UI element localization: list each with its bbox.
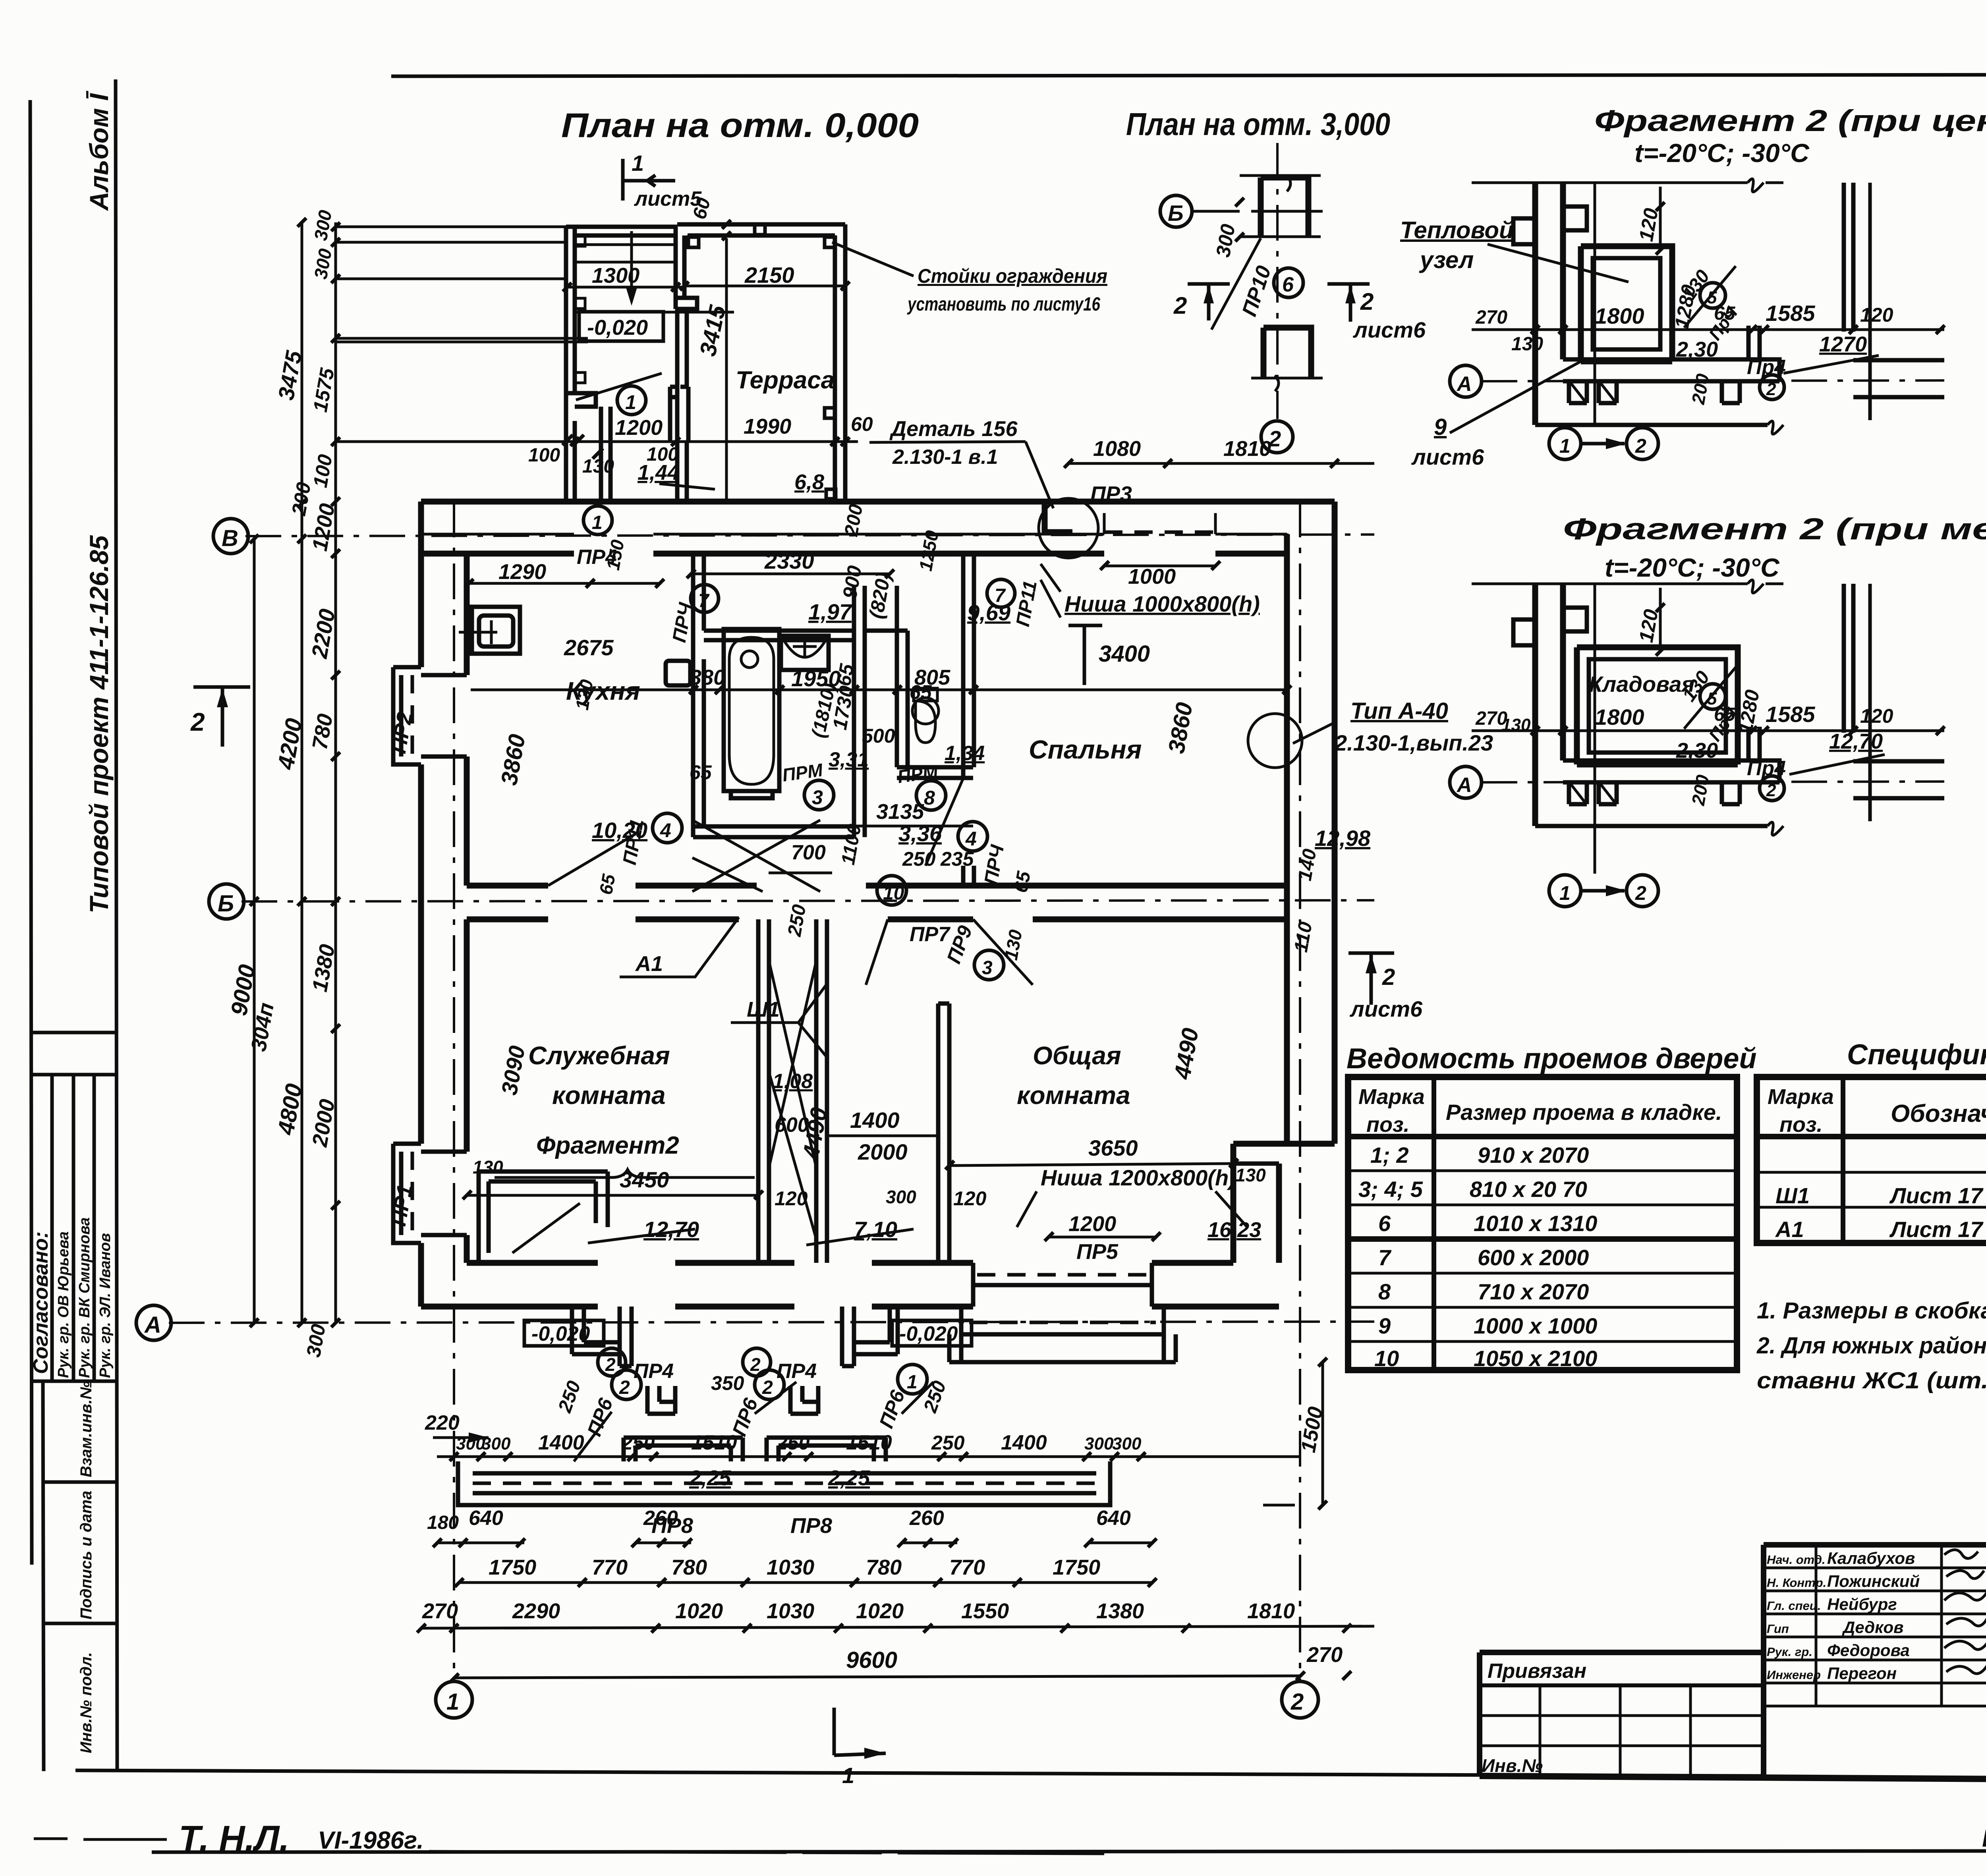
svg-text:770: 770 (592, 1556, 628, 1579)
right exterior wall upper (bedroom) (1287, 502, 1335, 1144)
svg-text:Спецификация шкафов и антрес: Спецификация шкафов и антресолей (1847, 1039, 1986, 1071)
svg-text:2: 2 (190, 708, 205, 736)
kitchen-bath partition (693, 554, 704, 837)
dims hall 2330 900 (691, 573, 890, 575)
window bay ПР2 (393, 667, 467, 764)
svg-text:6: 6 (1282, 273, 1294, 296)
svg-text:1290: 1290 (498, 560, 546, 584)
kitchen stove (666, 661, 690, 685)
bottom outer sheet edge (152, 1851, 1986, 1852)
svg-text:270: 270 (422, 1599, 458, 1623)
svg-text:65: 65 (910, 681, 932, 703)
detail circle ПР3 (1039, 498, 1098, 558)
table grid (1348, 1077, 1737, 1370)
svg-text:установить по листу16: установить по листу16 (907, 294, 1100, 315)
terrace left boundary lower (677, 309, 687, 502)
svg-text:Копировал Плотникова: Копировал Плотникова (1982, 1825, 1986, 1852)
position circles 3 and 8 (804, 780, 834, 810)
svg-text:ПР5: ПР5 (1076, 1240, 1119, 1264)
svg-text:1: 1 (446, 1689, 459, 1715)
svg-text:2: 2 (1268, 426, 1281, 451)
svg-text:Фрагмент2: Фрагмент2 (536, 1132, 679, 1159)
svg-text:комната: комната (552, 1081, 666, 1110)
svg-text:250: 250 (776, 1432, 810, 1454)
corner cupboard diagonals near kitchen door (692, 820, 820, 892)
svg-text:9: 9 (1378, 1313, 1391, 1338)
window ПР5 niche bottom (973, 1263, 1152, 1307)
axis 2 vertical (1299, 502, 1301, 1680)
svg-text:Согласовано:: Согласовано: (29, 1231, 52, 1374)
steps block left (647, 1386, 675, 1414)
leader + big circle on right wall (1293, 724, 1333, 743)
svg-text:130: 130 (1235, 1165, 1266, 1185)
dim 1500 rotated right (1321, 1362, 1324, 1505)
svg-text:1990: 1990 (744, 415, 791, 438)
svg-text:1,08: 1,08 (773, 1070, 813, 1093)
chain 1750 770 780 1030 780 770 1750 y=3985 (459, 1581, 1152, 1584)
leader diagonals (574, 1382, 933, 1461)
staff table outer (1764, 1542, 1986, 1548)
axis circle Б mini (1160, 195, 1192, 227)
svg-text:Перегон: Перегон (1827, 1664, 1897, 1683)
svg-text:9: 9 (1434, 414, 1447, 440)
svg-text:лист6: лист6 (1352, 317, 1426, 342)
svg-text:1400: 1400 (1001, 1431, 1047, 1454)
bath tub (724, 629, 779, 791)
svg-text:А1: А1 (1775, 1217, 1804, 1242)
chain line 4200/4800 (301, 222, 303, 1323)
svg-text:t=-20°C; -30°C: t=-20°C; -30°C (1634, 138, 1810, 168)
svg-text:План на отм. 0,000: План на отм. 0,000 (561, 106, 919, 145)
svg-text:16,23: 16,23 (1207, 1218, 1261, 1242)
svg-text:1510: 1510 (691, 1431, 737, 1454)
axis А horizontal (169, 1322, 1374, 1323)
svg-text:Размер проема в кладке.: Размер проема в кладке. (1446, 1100, 1722, 1125)
niche dashed in top wall (1104, 531, 1215, 534)
stamp box Согласовано (30, 1031, 116, 1035)
svg-text:7: 7 (698, 591, 710, 612)
svg-text:60: 60 (851, 413, 873, 435)
svg-text:1,34: 1,34 (945, 742, 985, 765)
svg-text:220: 220 (425, 1411, 460, 1434)
svg-text:2: 2 (1291, 1689, 1304, 1715)
svg-text:300: 300 (481, 1434, 511, 1453)
svg-text:12,70: 12,70 (1829, 730, 1883, 753)
section mark 2 left (1188, 284, 1230, 320)
svg-text:130: 130 (1501, 715, 1531, 735)
svg-text:2000: 2000 (858, 1139, 908, 1164)
bedroom partition (963, 554, 974, 886)
position circles 7 (583, 506, 612, 535)
door hinge squares on left wall (575, 236, 585, 246)
svg-text:-0,020: -0,020 (531, 1322, 590, 1345)
dim row 1200 / 1990 / 60 (566, 440, 858, 443)
svg-text:770: 770 (949, 1556, 985, 1579)
svg-text:комната: комната (1017, 1081, 1130, 1110)
svg-text:VI-1986г.: VI-1986г. (318, 1827, 424, 1854)
vestibule partition (601, 407, 610, 502)
bottom circles (1549, 875, 1658, 907)
svg-text:65: 65 (690, 761, 712, 784)
svg-text:ПР7: ПР7 (910, 923, 950, 946)
svg-text:4: 4 (965, 828, 977, 850)
top exterior wall (421, 502, 1335, 554)
svg-text:300: 300 (886, 1187, 916, 1207)
stair arrow (630, 231, 633, 300)
svg-text:Калабухов: Калабухов (1827, 1549, 1915, 1567)
chain 270 2290 1020 1030 1020 1550 1380 1810 y=4100 (421, 1626, 1374, 1628)
staff cols (1815, 1545, 1818, 1706)
svg-text:710 х 2070: 710 х 2070 (1478, 1279, 1589, 1304)
section mark bottom (834, 1708, 886, 1755)
svg-text:Пожинский: Пожинский (1827, 1572, 1920, 1590)
svg-text:2,25: 2,25 (828, 1466, 870, 1490)
door jamb П element (670, 387, 688, 440)
svg-text:120: 120 (775, 1187, 808, 1210)
left inner frame (116, 79, 117, 1771)
svg-text:2150: 2150 (744, 262, 794, 288)
svg-text:Лист 17: Лист 17 (1889, 1183, 1984, 1208)
svg-text:Рук. гр. ОВ Юрьева: Рук. гр. ОВ Юрьева (55, 1231, 72, 1378)
svg-text:2: 2 (1382, 964, 1395, 990)
svg-text:ПР4: ПР4 (777, 1360, 817, 1383)
left exterior wall (421, 502, 467, 1307)
svg-text:А: А (144, 1312, 161, 1338)
porch steps ПР8 left (624, 1438, 743, 1461)
toilet (912, 698, 939, 724)
svg-text:10: 10 (1374, 1346, 1399, 1371)
svg-text:1750: 1750 (1053, 1556, 1100, 1579)
svg-text:1080: 1080 (1093, 437, 1141, 461)
section mark 2 right + лист6 (1327, 284, 1370, 322)
svg-text:8: 8 (1378, 1279, 1391, 1304)
svg-text:Лист 17: Лист 17 (1889, 1217, 1984, 1242)
svg-text:-0,020: -0,020 (587, 316, 648, 340)
axis circle 2 mini (1261, 421, 1293, 453)
circles 2 2 1 bottom (612, 1370, 641, 1399)
bottom of title block (1480, 1776, 1986, 1782)
svg-text:1020: 1020 (675, 1599, 723, 1623)
chain line small segments (334, 222, 337, 1323)
svg-text:2: 2 (619, 1377, 630, 1398)
porch steps ПР8 right (767, 1438, 886, 1461)
svg-text:250: 250 (931, 1432, 965, 1454)
svg-text:Обозначение: Обозначение (1891, 1100, 1986, 1127)
svg-text:3; 4; 5: 3; 4; 5 (1358, 1177, 1423, 1202)
axis vertical 2 (1276, 143, 1279, 419)
svg-text:Деталь 156: Деталь 156 (889, 417, 1018, 441)
dim 1290 kitchen (469, 582, 659, 585)
svg-text:1000: 1000 (1128, 565, 1176, 589)
svg-text:-0,020: -0,020 (899, 1322, 958, 1345)
svg-text:350: 350 (711, 1372, 744, 1394)
svg-text:300: 300 (1112, 1434, 1142, 1453)
svg-text:1200: 1200 (1068, 1212, 1116, 1236)
svg-text:65: 65 (595, 872, 619, 896)
svg-text:235: 235 (940, 848, 974, 870)
steps block mid (790, 1386, 818, 1414)
svg-text:1. Размеры в скобках даны для: 1. Размеры в скобках даны для варианта с… (1757, 1298, 1986, 1324)
svg-text:3135: 3135 (876, 800, 924, 824)
stairs steps (575, 245, 734, 312)
left stamp column (29, 91, 116, 1771)
position circle 1 (617, 386, 646, 415)
svg-text:Кладовая: Кладовая (1589, 672, 1694, 697)
svg-text:1380: 1380 (1096, 1599, 1144, 1623)
shaft top walls to hall (854, 586, 897, 631)
svg-text:2675: 2675 (564, 635, 614, 660)
svg-text:1510: 1510 (846, 1431, 892, 1454)
svg-text:1050 х 2100: 1050 х 2100 (1474, 1346, 1597, 1371)
svg-text:600 х 2000: 600 х 2000 (1478, 1245, 1589, 1270)
svg-text:1550: 1550 (961, 1599, 1009, 1623)
room divider wall (закрытая/общая) (758, 919, 827, 1263)
svg-text:Тип А-40: Тип А-40 (1350, 698, 1448, 724)
svg-text:Рук. гр. ЭЛ. Иванов: Рук. гр. ЭЛ. Иванов (97, 1233, 114, 1378)
svg-text:2290: 2290 (512, 1599, 560, 1623)
axis Б horizontal (241, 900, 1374, 901)
svg-text:Типовой проект 411-1-126.85: Типовой проект 411-1-126.85 (84, 535, 114, 913)
dim 3415 rotated (725, 238, 728, 502)
svg-text:Терраса: Терраса (736, 367, 835, 394)
svg-text:180: 180 (427, 1512, 459, 1533)
svg-text:270: 270 (1306, 1643, 1343, 1667)
svg-text:2. Для южных районов следует п: 2. Для южных районов следует предусматри… (1756, 1333, 1986, 1359)
svg-text:3400: 3400 (1099, 641, 1150, 667)
left outer sheet edge (30, 100, 32, 1565)
circle 10 (877, 876, 906, 905)
svg-text:600: 600 (775, 1114, 809, 1137)
svg-text:3,36: 3,36 (898, 821, 942, 846)
svg-text:Ш1: Ш1 (747, 998, 780, 1021)
svg-text:Инв.№: Инв.№ (1482, 1755, 1543, 1776)
svg-text:2: 2 (762, 1377, 773, 1398)
svg-text:Общая: Общая (1033, 1041, 1121, 1070)
door porch left ПР4 (572, 1307, 632, 1366)
svg-text:3,31: 3,31 (829, 748, 869, 771)
svg-text:ПР8: ПР8 (790, 1514, 832, 1538)
svg-text:120: 120 (953, 1187, 987, 1210)
top border line (391, 74, 1986, 76)
signature squiggles (1944, 1550, 1986, 1674)
svg-text:Привязан: Привязан (1488, 1660, 1586, 1683)
dim 700 (769, 872, 832, 874)
svg-text:Служебная: Служебная (528, 1041, 670, 1070)
svg-text:лист6: лист6 (1349, 996, 1423, 1021)
vertical axis line (1594, 584, 1596, 874)
svg-text:1300: 1300 (592, 264, 639, 288)
dims 1080 1810 top right (1068, 462, 1374, 465)
svg-text:1400: 1400 (538, 1431, 584, 1454)
svg-text:Дедков: Дедков (1842, 1618, 1903, 1637)
svg-text:500: 500 (862, 725, 895, 747)
svg-text:1,97: 1,97 (808, 599, 853, 624)
svg-text:640: 640 (1096, 1507, 1131, 1530)
dim 9600 (454, 1676, 1300, 1678)
svg-text:6,8: 6,8 (794, 470, 824, 494)
svg-text:Гл. спец.: Гл. спец. (1767, 1599, 1821, 1613)
svg-text:Н. Контр.: Н. Контр. (1767, 1576, 1826, 1590)
svg-text:Марка: Марка (1768, 1085, 1834, 1109)
svg-text:Тепловой: Тепловой (1400, 217, 1514, 243)
svg-text:250: 250 (902, 848, 936, 870)
svg-text:7: 7 (1378, 1245, 1392, 1270)
svg-text:12,98: 12,98 (1315, 826, 1371, 851)
svg-text:1200: 1200 (615, 416, 663, 440)
svg-text:Марка: Марка (1358, 1085, 1425, 1109)
bath top wall (704, 631, 854, 640)
bottom exterior wall (421, 1263, 1279, 1307)
entry porch left wall (566, 227, 575, 502)
terrace outer walls (677, 224, 845, 502)
svg-text:3: 3 (982, 957, 993, 979)
axis circle 6 (1274, 268, 1303, 297)
leader line from notch to level mark (576, 373, 662, 400)
svg-text:1000 х 1000: 1000 х 1000 (1474, 1313, 1597, 1338)
WC walls (897, 631, 973, 778)
left lower table Привязан (1480, 1650, 1764, 1655)
stub wall in living room (938, 1004, 949, 1263)
bath washbasin (741, 651, 758, 668)
shaft wall (854, 631, 865, 837)
svg-text:Ведомость проемов дверей: Ведомость проемов дверей (1347, 1043, 1756, 1075)
svg-text:2: 2 (605, 1354, 616, 1375)
svg-text:6: 6 (1378, 1211, 1391, 1236)
left window sill band ПР1 area (fireplace ledge) (479, 1172, 608, 1263)
svg-text:Т. Н.Л.: Т. Н.Л. (179, 1819, 289, 1859)
chimney block upper (1261, 178, 1308, 237)
svg-text:4: 4 (660, 819, 671, 841)
stamp cells Взам.инв.№ / Подпись и дата / Инв.№ подл. (43, 1381, 44, 1771)
svg-text:1: 1 (625, 391, 636, 413)
svg-text:2,25: 2,25 (689, 1466, 731, 1490)
svg-text:Федорова: Федорова (1827, 1641, 1910, 1660)
section mark 2 left (193, 687, 250, 747)
heater room box (1581, 246, 1672, 361)
-0,020 marks bottom (524, 1320, 604, 1346)
svg-text:В: В (222, 525, 238, 551)
section mark 2 лист6 below bedroom (1348, 953, 1394, 1005)
svg-text:1: 1 (632, 151, 644, 176)
svg-text:поз.: поз. (1366, 1113, 1410, 1137)
svg-text:1750: 1750 (489, 1556, 536, 1579)
horizontal connector lines top (336, 227, 588, 442)
svg-text:1,44: 1,44 (638, 461, 679, 484)
svg-text:План на отм. 3,000: План на отм. 3,000 (1126, 106, 1390, 142)
svg-text:лист6: лист6 (1411, 444, 1484, 469)
svg-text:130: 130 (1511, 334, 1543, 355)
right wall step (1233, 1144, 1335, 1263)
svg-text:100: 100 (528, 445, 560, 466)
svg-text:ПР3: ПР3 (1090, 482, 1132, 506)
svg-text:Рук. гр.: Рук. гр. (1767, 1645, 1812, 1659)
svg-text:ставни ЖС1 (шт. 2) и ЖС2 (шт.: ставни ЖС1 (шт. 2) и ЖС2 (шт. 2) - см. с… (1757, 1368, 1986, 1393)
svg-text:А1: А1 (635, 952, 663, 976)
door porch center ПР4 (842, 1307, 898, 1366)
closet diagonals Ш1 (769, 961, 816, 1239)
bottom-left signature Т.Н.Л. VI-1986 (34, 1819, 1104, 1859)
leader Стойки ограждения (832, 242, 914, 276)
svg-text:1270: 1270 (1819, 332, 1867, 356)
svg-text:3450: 3450 (620, 1167, 669, 1192)
svg-text:700: 700 (791, 841, 826, 864)
svg-text:Стойки ограждения: Стойки ограждения (918, 265, 1107, 287)
svg-text:Б: Б (218, 891, 234, 917)
inner dim line across rooms (471, 689, 1287, 691)
svg-text:Альбом Ī: Альбом Ī (84, 91, 114, 211)
svg-text:1400: 1400 (850, 1108, 900, 1133)
staff rows (1764, 1567, 1986, 1569)
svg-text:7: 7 (995, 585, 1006, 606)
svg-text:Ниша 1000х800(h): Ниша 1000х800(h) (1064, 591, 1260, 616)
svg-text:260: 260 (643, 1507, 678, 1530)
svg-text:Фрагмент 2 (при центральном: Фрагмент 2 (при центральном отоплении). (1594, 104, 1986, 138)
chimney block lower (1263, 328, 1311, 378)
vertical axis line (1594, 183, 1596, 427)
svg-text:1030: 1030 (767, 1556, 814, 1579)
svg-text:10: 10 (883, 883, 904, 904)
svg-text:Ниша 1200х800(h): Ниша 1200х800(h) (1041, 1165, 1236, 1190)
svg-text:300: 300 (1084, 1434, 1114, 1453)
svg-text:узел: узел (1419, 247, 1474, 273)
svg-text:250: 250 (621, 1432, 655, 1454)
svg-text:3: 3 (812, 786, 823, 809)
bottom circles (1549, 428, 1658, 459)
porch slab long (458, 1461, 1110, 1505)
chain line 9000 (253, 539, 256, 1323)
svg-text:Инв.№ подл.: Инв.№ подл. (77, 1652, 95, 1753)
svg-text:8: 8 (924, 787, 935, 809)
svg-text:Инженер: Инженер (1767, 1668, 1821, 1682)
svg-text:1010 х 1310: 1010 х 1310 (1474, 1211, 1597, 1236)
stair block right wall with foot (676, 227, 697, 309)
svg-text:2.130-1 в.1: 2.130-1 в.1 (892, 446, 998, 469)
svg-text:780: 780 (866, 1556, 902, 1579)
entry top wall (566, 227, 677, 235)
svg-text:Подпись и дата: Подпись и дата (77, 1491, 95, 1619)
svg-text:поз.: поз. (1779, 1113, 1823, 1137)
svg-text:Спальня: Спальня (1029, 735, 1142, 764)
svg-text:3650: 3650 (1088, 1135, 1138, 1160)
svg-text:1030: 1030 (767, 1599, 814, 1623)
svg-text:2: 2 (750, 1354, 761, 1375)
dim 3135 (719, 825, 973, 828)
svg-text:1: 1 (592, 512, 603, 533)
svg-text:65: 65 (833, 662, 858, 688)
svg-text:Б: Б (1168, 201, 1184, 226)
svg-text:2330: 2330 (764, 548, 814, 573)
svg-text:1020: 1020 (856, 1599, 904, 1623)
bottom inner frame left part (75, 1770, 1764, 1776)
svg-text:780: 780 (671, 1556, 707, 1579)
svg-text:1810: 1810 (1223, 437, 1271, 461)
titles of the two plans (561, 106, 1390, 145)
axis В horizontal (245, 535, 1374, 536)
svg-text:810 х 20 70: 810 х 20 70 (1470, 1177, 1587, 1202)
svg-text:ПР4: ПР4 (634, 1360, 674, 1383)
svg-text:Гип: Гип (1767, 1622, 1789, 1636)
level mark -0,020 box (579, 312, 663, 341)
svg-text:1; 2: 1; 2 (1370, 1143, 1409, 1168)
chain 300 300 1400 250 1510 ... y=3670 (437, 1455, 1300, 1458)
bath sink with cross (781, 636, 829, 670)
leader diagonal (1211, 238, 1261, 330)
svg-text:130: 130 (582, 456, 614, 477)
kitchen sink (472, 607, 520, 654)
svg-text:380: 380 (690, 666, 725, 689)
svg-text:1810: 1810 (1247, 1599, 1295, 1623)
svg-text:Ш1: Ш1 (1775, 1183, 1810, 1208)
